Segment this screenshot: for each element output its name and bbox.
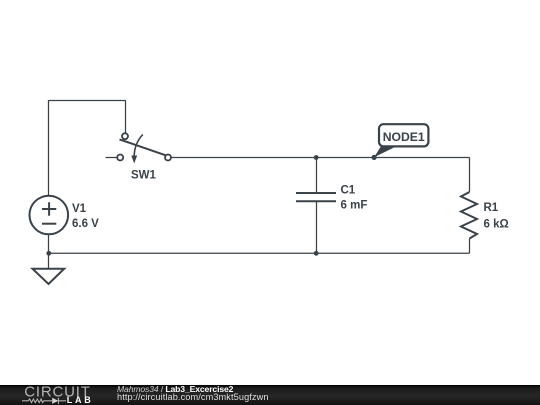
label R1 value [484, 202, 509, 231]
footer bar [0, 385, 540, 405]
junction node dot C1 bottom [314, 251, 319, 256]
wire into switch pivot [125, 100, 127, 133]
label C1 value [341, 185, 368, 212]
wire switch left stub [106, 157, 118, 159]
svg-text:C1: C1 [341, 185, 356, 197]
svg-text:R1: R1 [484, 202, 499, 214]
voltage source V1 [30, 196, 69, 235]
junction node dot V1 ground [46, 251, 51, 256]
label V1 value [72, 203, 99, 230]
label SW1 [131, 170, 157, 182]
wire C1 bottom [316, 201, 318, 253]
svg-text:6 kΩ: 6 kΩ [484, 219, 509, 231]
svg-text:SW1: SW1 [131, 170, 157, 182]
junction node dot C1 top [314, 155, 319, 160]
wire top-left vertical [48, 100, 50, 196]
wire V1 bottom [48, 235, 50, 269]
wire bottom horizontal [48, 252, 470, 254]
capacitor C1 [296, 193, 336, 201]
resistor R1 [461, 192, 477, 239]
switch SW1 [117, 133, 171, 163]
wire C1 top [316, 158, 318, 194]
wire top horizontal [49, 100, 126, 102]
node NODE1 callout [372, 124, 429, 160]
credit text line 1 [117, 385, 233, 394]
CircuitLab logo [0, 385, 100, 405]
wire main horizontal node [171, 157, 469, 159]
ground [33, 269, 65, 284]
svg-text:LAB: LAB [67, 395, 94, 405]
svg-text:6.6 V: 6.6 V [72, 218, 99, 230]
svg-text:6 mF: 6 mF [341, 200, 368, 212]
svg-text:NODE1: NODE1 [383, 130, 425, 144]
svg-text:V1: V1 [72, 203, 87, 215]
credit text line 2 [117, 393, 269, 402]
wire R1 bottom [469, 239, 471, 254]
wire R1 top [469, 158, 471, 193]
